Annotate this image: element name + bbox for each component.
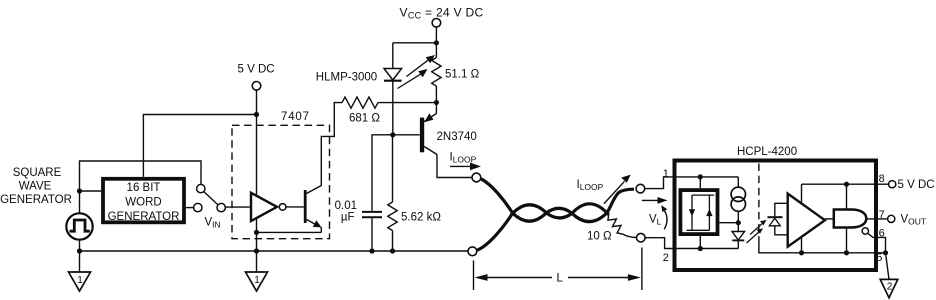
wire pole to buffer: [225, 206, 251, 208]
wire cs top: [737, 177, 739, 187]
source square wave generator: [66, 213, 92, 239]
node junction cap-gnd: [369, 248, 374, 253]
wire buffer to transistor base: [286, 206, 304, 208]
terminal loop lower right: [637, 233, 646, 242]
terminal 5V right: [876, 183, 889, 185]
gate output stage: [834, 210, 867, 228]
wire pin 7: [866, 218, 887, 220]
dimension L: [473, 261, 475, 291]
wire collector to loop terminal: [437, 155, 472, 178]
svg-text:L: L: [557, 273, 564, 285]
wire amp bottom stub: [801, 235, 803, 253]
box 7407 dashed: [232, 125, 330, 238]
svg-text:2: 2: [887, 282, 893, 293]
switch circle box out: [194, 203, 202, 211]
wire pin 1: [645, 177, 739, 189]
node junction 7407 gnd: [254, 230, 259, 235]
ground 2 right: [880, 279, 898, 297]
arrow VL: [642, 199, 661, 201]
switch circle pole: [217, 203, 225, 211]
pin 2 label: [663, 252, 669, 264]
wire gen bottom: [79, 240, 81, 272]
twisted pair wire upper: [481, 179, 634, 222]
pin 7 label: [879, 209, 885, 221]
ground 1 left: [69, 272, 91, 291]
node junction 5V-wordgen: [254, 112, 259, 117]
svg-text:5 V DC: 5 V DC: [238, 64, 275, 76]
svg-text:51.1 Ω: 51.1 Ω: [445, 68, 480, 80]
wire amp top stub: [801, 184, 803, 205]
pin 6 label: [879, 228, 885, 240]
switch circle upper: [197, 184, 205, 192]
bridge glyph: [687, 195, 715, 230]
svg-text:HLMP-3000: HLMP-3000: [316, 71, 377, 83]
svg-text:10 Ω: 10 Ω: [587, 231, 612, 243]
svg-text:µF: µF: [341, 212, 355, 224]
wire emitter node line: [378, 102, 436, 104]
transistor Q1 2N3740: [420, 118, 424, 153]
wire emitter rail inside 7407: [257, 231, 322, 233]
node junction pin1: [698, 174, 703, 179]
svg-text:5.62 kΩ: 5.62 kΩ: [401, 212, 441, 224]
svg-text:1: 1: [254, 275, 260, 286]
label 0.01 uF: [335, 200, 357, 224]
transistor open collector: [304, 190, 307, 223]
label 51.1 ohm: [445, 68, 480, 80]
svg-text:2N3740: 2N3740: [437, 131, 477, 143]
wire cs node to bridge: [719, 222, 738, 224]
arrow ILOOP mid: [604, 181, 625, 203]
wire gen to box: [80, 190, 102, 192]
node junction emitter: [434, 100, 439, 105]
terminal VCC: [432, 19, 441, 28]
svg-text:WORD: WORD: [125, 197, 161, 209]
node junction amp bottom: [799, 250, 804, 255]
label 2N3740: [437, 131, 477, 143]
wire LED cathode down to base node: [392, 81, 394, 135]
wire LED anode: [392, 43, 394, 69]
wire box output: [186, 207, 194, 209]
capacitor C1 0.01 uF: [362, 211, 382, 213]
terminal VOUT: [888, 215, 895, 222]
wire bottom rail: [80, 250, 469, 252]
current source: [731, 187, 745, 201]
box 16 bit word generator: [103, 179, 184, 223]
wire to ground: [256, 251, 258, 272]
resistor R 5.62 kohm: [392, 135, 394, 202]
pin 8 label: [879, 173, 885, 185]
resistor R 681 ohm: [342, 97, 378, 108]
photodiode: [768, 216, 783, 218]
node junction gate bottom: [844, 250, 849, 255]
arc VL: [663, 208, 667, 229]
wire stubs bridge: [699, 177, 701, 188]
LED light arrows: [398, 55, 436, 89]
node junction cs-led: [736, 220, 741, 225]
svg-text:GENERATOR: GENERATOR: [0, 194, 72, 206]
svg-text:8: 8: [879, 173, 885, 185]
LED internal: [732, 232, 745, 241]
amplifier: [788, 194, 825, 247]
wire: [435, 27, 437, 43]
terminal loop upper right: [636, 184, 645, 193]
node VCC label: [400, 5, 484, 20]
label 10 ohm: [587, 231, 612, 243]
wire base to cap: [372, 135, 393, 211]
label HLMP-3000: [316, 71, 377, 83]
label 5.62 kohm: [401, 212, 441, 224]
svg-text:6: 6: [879, 228, 885, 240]
arrow ILOOP left: [450, 165, 474, 167]
node junction gen gnd: [77, 248, 82, 253]
node junction pin5-6: [883, 250, 888, 255]
node junction res-gnd: [390, 248, 395, 253]
wire 5V down: [256, 90, 258, 251]
wire cs bottom to LED: [737, 211, 739, 231]
svg-text:1: 1: [77, 275, 83, 286]
resistor R 51.1 ohm: [435, 43, 437, 58]
pin 1 label: [663, 168, 669, 180]
wire amp to gate: [825, 218, 834, 220]
label VL: [649, 214, 662, 227]
LED HLMP-3000: [384, 69, 402, 81]
wire top rail: [393, 42, 437, 44]
isolation dashed line: [758, 164, 760, 241]
terminal loop upper left: [472, 173, 481, 182]
wire detector gnd corner: [759, 240, 886, 253]
label 5 V DC: [238, 64, 275, 76]
label ILOOP mid: [577, 179, 604, 192]
node junction pin2: [698, 246, 703, 251]
LED light arrows internal: [747, 220, 767, 243]
svg-text:5 V DC: 5 V DC: [898, 179, 935, 191]
label 681 ohm: [349, 113, 380, 125]
wire gen top: [80, 161, 202, 213]
node junction gen out: [77, 188, 82, 193]
box HCPL-4200: [675, 161, 877, 271]
label 7407: [281, 111, 310, 123]
svg-text:2: 2: [663, 252, 669, 264]
svg-text:HCPL-4200: HCPL-4200: [737, 146, 797, 158]
label HCPL-4200: [737, 146, 797, 158]
buffer 7407 gate: [251, 193, 277, 221]
gate bubble pin6: [862, 228, 868, 234]
node junction gate top: [844, 182, 849, 187]
wire vcc rail internal: [802, 183, 877, 185]
label ILOOP left: [450, 152, 477, 165]
terminal loop lower left: [468, 247, 477, 256]
svg-text:SQUARE: SQUARE: [13, 167, 62, 179]
node junction VCC rail: [434, 40, 439, 45]
pin 5 label: [876, 252, 882, 264]
wire pin 2: [645, 238, 738, 249]
twisted pair wire lower: [477, 204, 609, 250]
resistor R 10 ohm: [608, 215, 637, 238]
wire box supply: [143, 115, 256, 177]
svg-text:16 BIT: 16 BIT: [127, 182, 161, 194]
wire collector up to 681: [321, 103, 342, 186]
label VIN: [205, 217, 221, 230]
svg-text:7: 7: [879, 209, 885, 221]
svg-text:WAVE: WAVE: [19, 181, 52, 193]
svg-text:GENERATOR: GENERATOR: [108, 211, 180, 223]
wire to ground 2: [886, 253, 890, 279]
svg-text:681 Ω: 681 Ω: [349, 113, 380, 125]
wire gate stubs: [846, 184, 848, 209]
switch lever: [204, 192, 218, 205]
bridge block box: [680, 190, 717, 234]
label SQUARE WAVE GENERATOR: [0, 167, 72, 206]
svg-text:7407: 7407: [281, 111, 310, 123]
node junction base: [390, 132, 395, 137]
wire photodiode stubs: [775, 203, 788, 216]
svg-text:5: 5: [876, 252, 882, 264]
ground 1 center: [246, 272, 268, 291]
svg-text:0.01: 0.01: [335, 200, 357, 212]
wire pin 6: [868, 233, 886, 253]
terminal 5V: [252, 82, 261, 91]
node junction 5V gnd rail: [254, 248, 259, 253]
